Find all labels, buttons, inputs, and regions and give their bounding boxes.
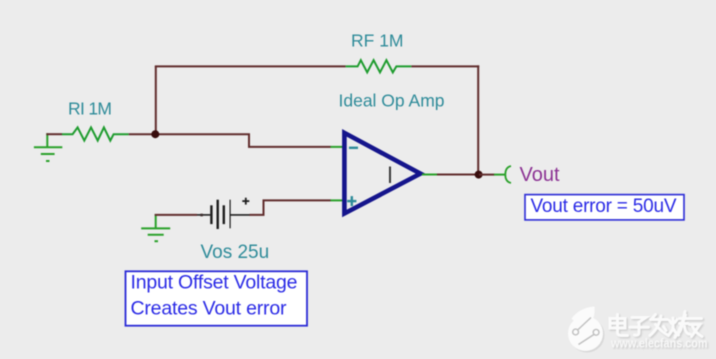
watermark chinese text xyxy=(610,312,702,338)
node B junction dot xyxy=(475,171,483,179)
wire green stub Vout xyxy=(494,174,506,176)
wire node A to op-amp minus input xyxy=(155,134,332,147)
wire top feedback left riser xyxy=(155,66,157,134)
wire RI to node A xyxy=(129,133,155,135)
annotation box Input Offset Voltage xyxy=(126,271,308,325)
resistor RF1 xyxy=(346,60,412,72)
wire green stub plus input xyxy=(331,199,344,201)
op-amp ideal marker l xyxy=(389,167,391,184)
svg-text:Creates Vout error: Creates Vout error xyxy=(131,297,288,319)
svg-text:Vout: Vout xyxy=(520,164,560,186)
op-amp U1 triangle xyxy=(344,133,420,214)
wire battery to op-amp plus input xyxy=(250,200,332,215)
output pin symbol xyxy=(505,166,511,183)
wire top feedback horizontal left xyxy=(155,65,346,67)
wire ground2 to battery xyxy=(155,214,197,216)
wire right riser to output node xyxy=(477,65,479,174)
battery wire junction tick xyxy=(200,214,203,217)
resistor RI1 xyxy=(62,127,129,140)
wire green stub minus input xyxy=(331,146,344,148)
wire op-amp output green stub xyxy=(422,174,438,176)
wire ground1 to RI xyxy=(46,133,62,135)
svg-text:www.elecfans.com: www.elecfans.com xyxy=(610,336,707,351)
wire node B to Vout pin xyxy=(479,174,495,176)
watermark logo circle xyxy=(568,307,605,353)
svg-text:Vout error = 50uV: Vout error = 50uV xyxy=(531,196,677,217)
node A junction dot xyxy=(151,130,159,138)
svg-text:RI 1M: RI 1M xyxy=(68,99,112,119)
wire top feedback horizontal right xyxy=(411,65,479,67)
battery VS1 Vos xyxy=(197,200,250,229)
svg-text:RF 1M: RF 1M xyxy=(351,31,404,51)
svg-text:Ideal Op Amp: Ideal Op Amp xyxy=(339,91,445,111)
op-amp minus symbol xyxy=(349,147,358,149)
svg-text:Vos 25u: Vos 25u xyxy=(201,242,270,263)
ground GND2 xyxy=(141,214,170,241)
op-amp plus symbol xyxy=(347,196,356,206)
svg-text:Input Offset Voltage: Input Offset Voltage xyxy=(131,272,298,294)
annotation box Vout error xyxy=(525,195,684,220)
wire output to node B xyxy=(437,174,479,176)
ground GND1 xyxy=(34,133,62,161)
battery plus sign xyxy=(242,198,249,205)
